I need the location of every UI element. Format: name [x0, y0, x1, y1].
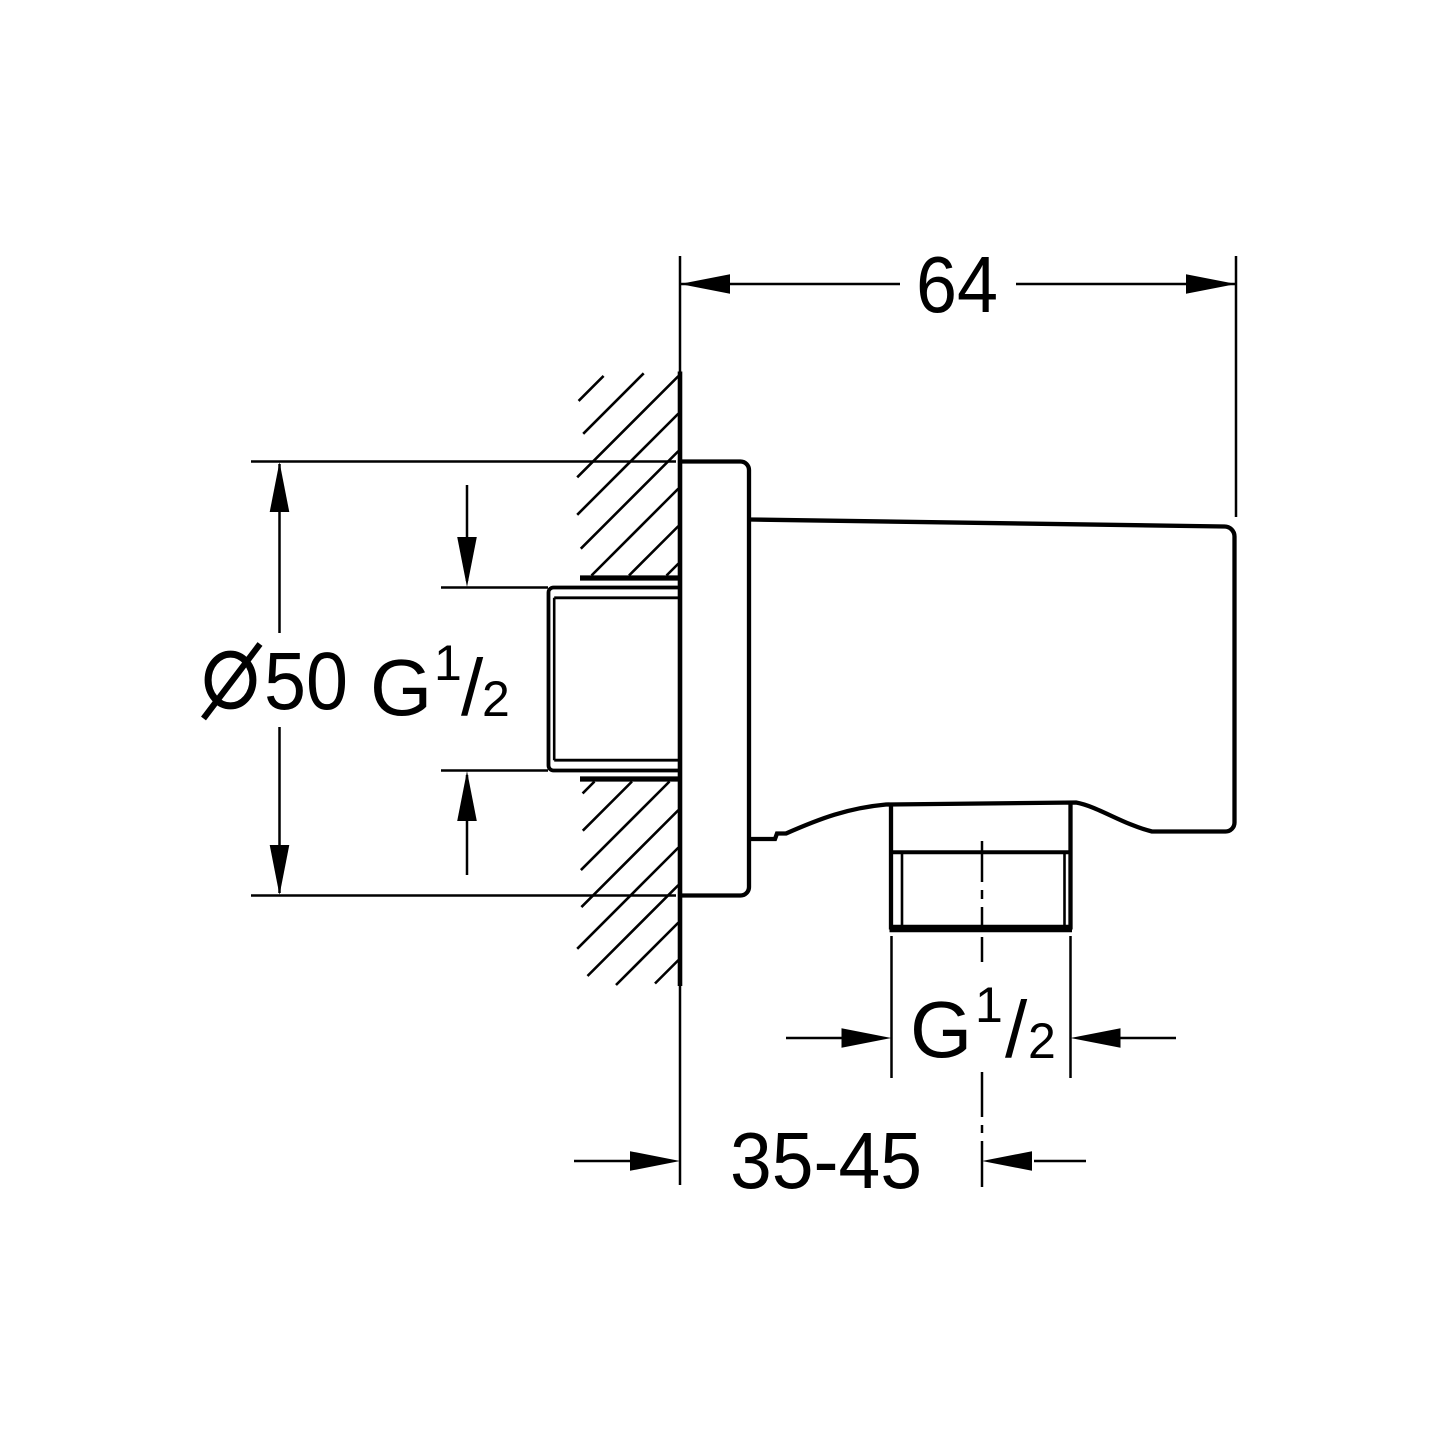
- inlet thread dim: lower dimension line: [466, 775, 469, 875]
- dimension O50: dimension line upper segment: [278, 464, 281, 633]
- svg-text:2: 2: [482, 671, 510, 727]
- wall hole top edge: [580, 575, 680, 580]
- outlet thread dim: left extension line: [890, 936, 893, 1078]
- dimension O50: bottom extension line: [251, 894, 676, 897]
- inlet thread dim: up arrowhead: [457, 771, 477, 821]
- outlet thread start line: [891, 850, 1071, 854]
- svg-text:50: 50: [264, 636, 348, 727]
- svg-text:/: /: [461, 643, 484, 732]
- inlet block thread relief bottom: [554, 759, 679, 762]
- inlet thread dim: bottom extension line: [441, 769, 548, 772]
- outlet thread dim: right-pointing arrowhead: [842, 1028, 892, 1048]
- outlet thread dim: right dimension line: [1118, 1037, 1176, 1040]
- dimension O50: dimension line lower segment: [278, 727, 281, 893]
- dimension O50: bottom arrowhead: [270, 845, 290, 895]
- svg-text:64: 64: [916, 240, 998, 329]
- wall hatching: [577, 373, 678, 985]
- dimension 64: left arrowhead: [680, 274, 730, 294]
- body outline: [749, 520, 1235, 840]
- outlet thread relief right: [1063, 854, 1066, 925]
- outlet thread dim: left-pointing arrowhead: [1071, 1028, 1121, 1048]
- inlet thread block G1/2 (behind wall): [549, 588, 680, 771]
- outlet block bottom thick edge: [890, 925, 1073, 933]
- diameter symbol slash: [204, 644, 261, 719]
- dimension 64: right extension line: [1235, 256, 1238, 517]
- inlet thread dim: top extension line: [441, 586, 548, 589]
- dimension 64: dimension line right segment: [1016, 283, 1235, 286]
- diameter symbol ring: [208, 654, 253, 706]
- dimension 35-45: right-pointing arrowhead: [630, 1151, 680, 1171]
- dimension 64: right arrowhead: [1186, 274, 1236, 294]
- outlet thread relief left: [901, 854, 904, 925]
- dimension 35-45: left-pointing arrowhead: [982, 1151, 1032, 1171]
- outlet thread dim: left dimension line: [786, 1037, 844, 1040]
- wall face line: [678, 372, 683, 987]
- dimension 35-45: left dimension line: [574, 1160, 632, 1163]
- inlet thread dim: down arrowhead: [457, 537, 477, 587]
- dimension O50: top extension line: [251, 460, 676, 463]
- thread label G 1/2 (bottom): [910, 977, 1056, 1074]
- wall hole bottom edge: [580, 776, 680, 781]
- svg-text:G: G: [370, 643, 432, 732]
- inlet thread dim: upper dimension line: [466, 485, 469, 581]
- svg-text:G: G: [910, 985, 972, 1074]
- svg-text:1: 1: [975, 977, 1003, 1033]
- svg-text:35-45: 35-45: [730, 1116, 922, 1205]
- escutcheon flange: [680, 462, 749, 896]
- dimension O50: top arrowhead: [270, 462, 290, 512]
- thread label G 1/2 (left): [370, 635, 510, 732]
- dimension 35-45: right dimension line: [1034, 1160, 1086, 1163]
- inlet block thread relief left: [553, 598, 556, 760]
- dimension 64: left extension line (above wall): [679, 256, 682, 372]
- outlet thread dim: right extension line: [1069, 936, 1072, 1078]
- outlet thread block right edge: [1068, 803, 1072, 930]
- outlet thread block G1/2 left edge: [889, 805, 893, 930]
- svg-text:2: 2: [1028, 1013, 1056, 1069]
- svg-text:/: /: [1005, 985, 1028, 1074]
- inlet block thread relief top: [554, 596, 679, 599]
- dimension 64: dimension line left segment: [681, 283, 900, 286]
- outlet centerline (dash-dot): [981, 841, 984, 1187]
- wall face extension line (below wall): [679, 986, 682, 1185]
- svg-text:1: 1: [434, 635, 462, 691]
